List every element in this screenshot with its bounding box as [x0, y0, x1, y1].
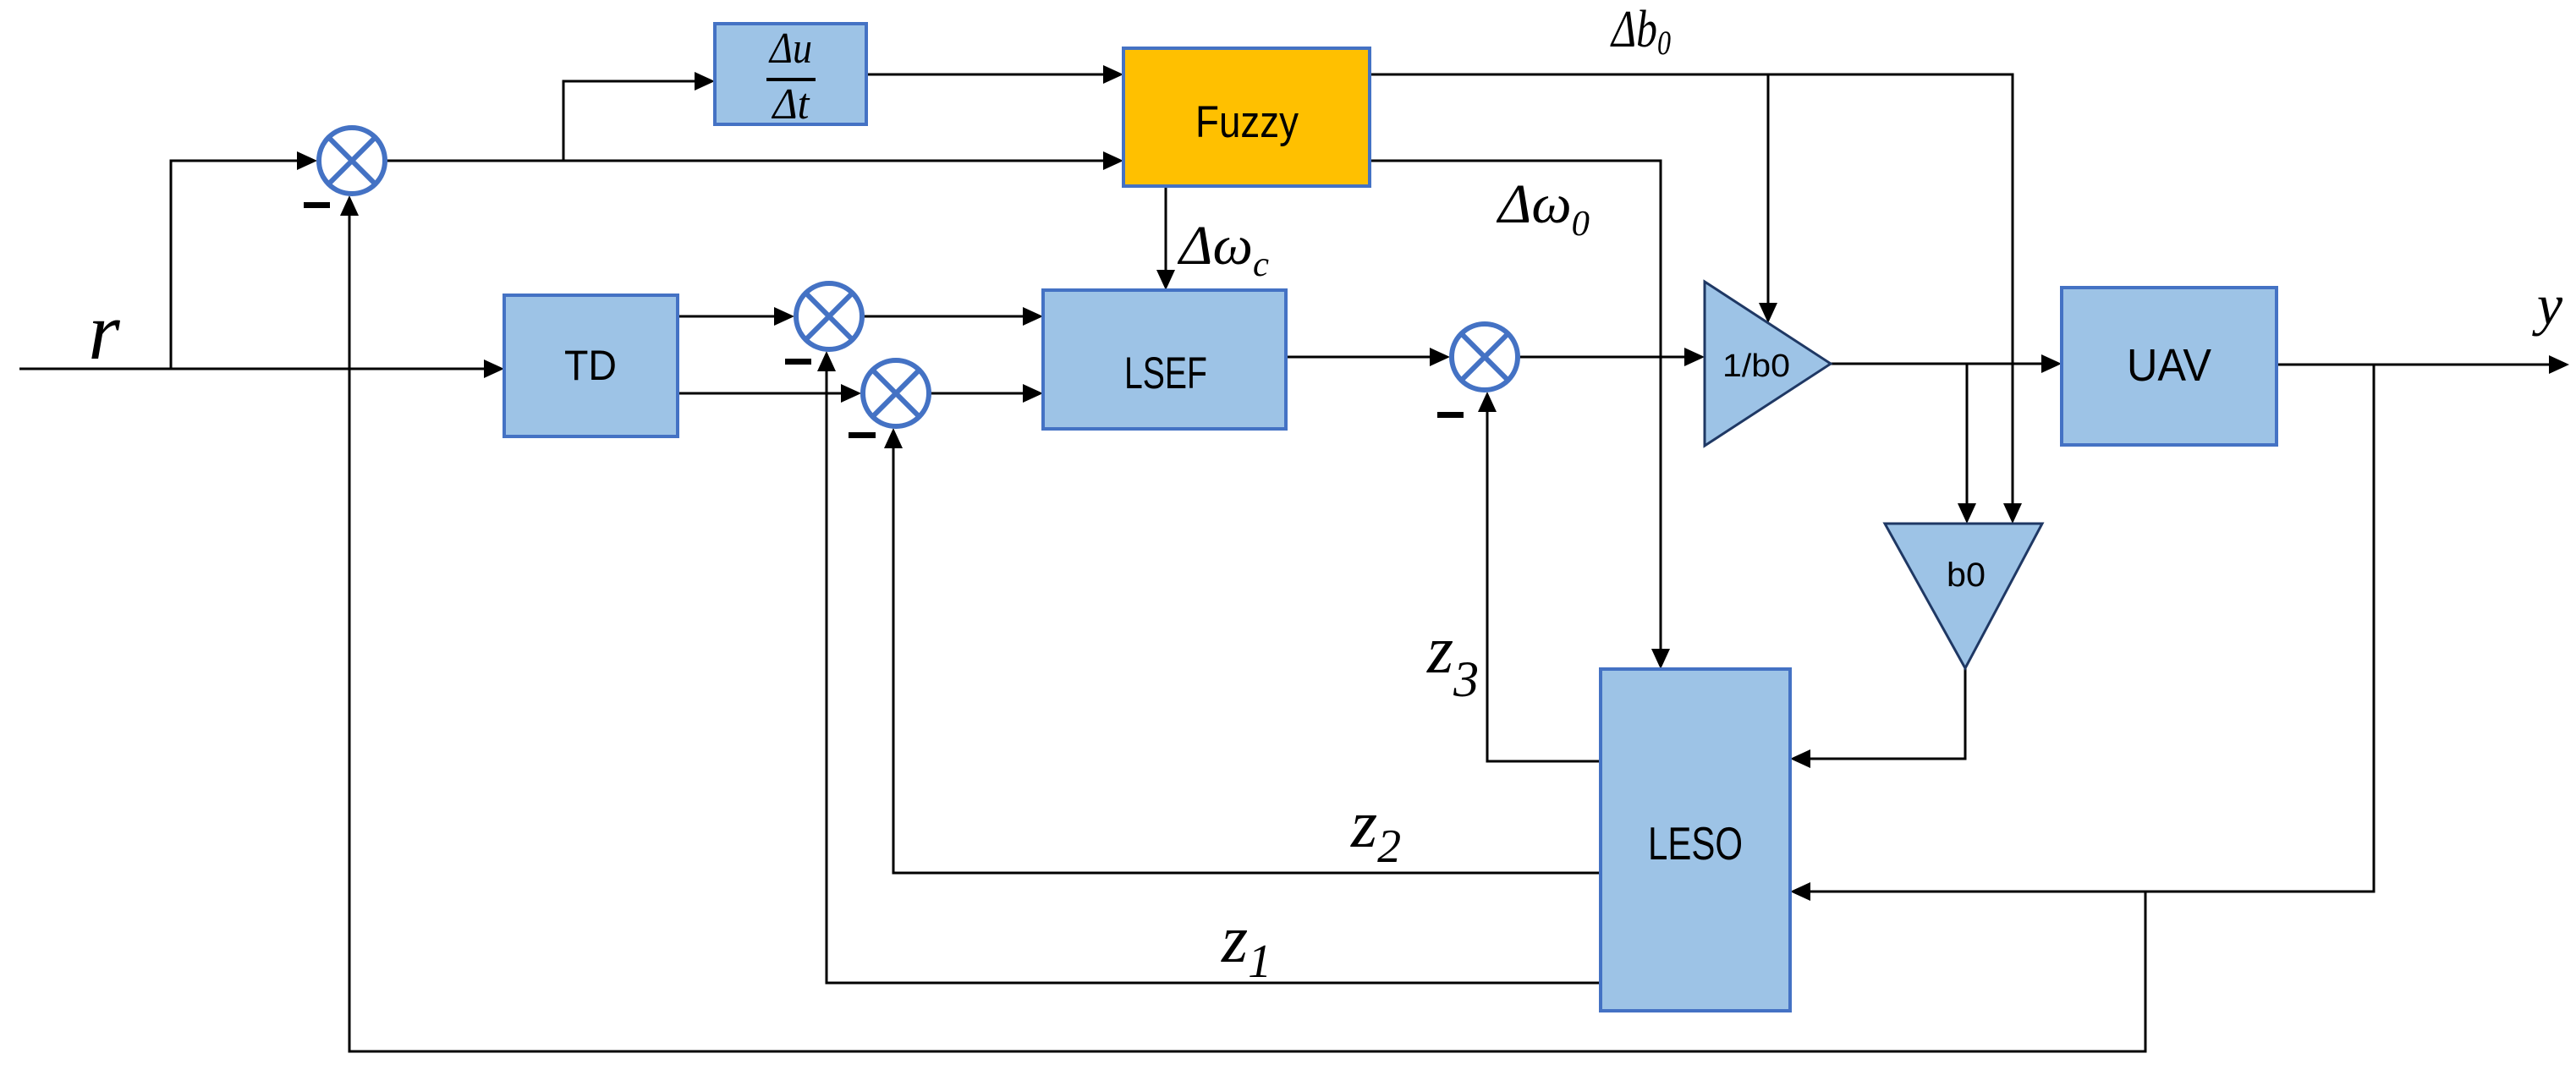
wire r input: [19, 368, 484, 370]
wire y feedback down to LESO right input: [1810, 365, 2374, 892]
wire S3 output to LSEF: [931, 392, 1023, 395]
wire UAV output to y: [2277, 364, 2549, 366]
arrowhead into Fuzzy lower input: [1103, 151, 1123, 170]
arrowhead z1 into S2 bottom: [817, 351, 836, 371]
arrowhead into UAV: [2041, 354, 2062, 373]
wire z2 from LESO to S3: [893, 448, 1601, 873]
wire 1/b0 output to UAV with branch down to b0: [1831, 363, 2041, 365]
arrowhead into du/dt: [695, 72, 715, 91]
arrowhead delta b0 into b0 top: [2003, 503, 2022, 524]
wire S2 output to LSEF: [864, 316, 1023, 318]
arrowhead z3 into S4 bottom: [1478, 392, 1497, 412]
minus sign at S1: [304, 202, 330, 208]
wire du/dt output to Fuzzy upper input: [866, 74, 1103, 76]
arrowhead delta b0 junction into 1/b0 top: [1759, 303, 1777, 323]
svg-text:Δt: Δt: [772, 80, 810, 129]
gain block b0: [1885, 524, 2042, 668]
wire Fuzzy lower output (delta omega0) to LESO top: [1370, 161, 1661, 649]
arrowhead delta omega0 into LESO top: [1651, 649, 1670, 669]
svg-text:LSEF: LSEF: [1124, 348, 1207, 398]
arrowhead into TD: [484, 359, 504, 378]
arrowhead into S1 left: [297, 151, 317, 170]
wire TD upper output to summing junction S2: [678, 316, 774, 318]
summing junction S2: [796, 283, 862, 349]
block UAV: [2062, 288, 2277, 445]
wire TD lower output to summing junction S3: [678, 392, 841, 395]
arrowhead y output: [2549, 355, 2569, 374]
svg-text:UAV: UAV: [2127, 340, 2211, 391]
arrowhead S3 output into LSEF: [1023, 384, 1043, 403]
svg-text:b0: b0: [1947, 557, 1986, 594]
block TD: [504, 295, 678, 436]
arrowhead S2 output into LSEF: [1023, 307, 1043, 326]
wire z3 from LESO to S4: [1487, 412, 1601, 761]
svg-text:Δu: Δu: [768, 25, 812, 73]
wire branch from UAV input line down to b0 top: [1966, 364, 1969, 503]
svg-text:LESO: LESO: [1648, 817, 1743, 870]
arrowhead into Fuzzy upper input: [1103, 65, 1123, 84]
svg-text:1/b0: 1/b0: [1722, 348, 1790, 384]
arrowhead b0 output into LESO right: [1790, 749, 1810, 768]
arrowhead z2 into S3 bottom: [884, 428, 903, 448]
arrowhead branch into b0 top: [1958, 503, 1976, 524]
minus sign at S3: [849, 432, 876, 438]
svg-text:y: y: [2532, 272, 2563, 337]
arrowhead y feedback into LESO right: [1790, 882, 1810, 901]
svg-text:Fuzzy: Fuzzy: [1195, 97, 1299, 147]
arrowhead TD lower output into S3: [841, 384, 861, 403]
wire S4 output to 1/b0 gain: [1519, 356, 1684, 359]
block Fuzzy: [1123, 48, 1370, 186]
minus sign at S2: [785, 359, 811, 365]
svg-text:TD: TD: [564, 342, 617, 389]
wire Fuzzy upper output (delta b0) across top and down to b0: [1370, 74, 2013, 503]
wire S1 output to Fuzzy lower input: [387, 160, 1103, 162]
summing junction S4: [1452, 324, 1518, 390]
summing junction S1: [319, 128, 385, 194]
minus sign at S4: [1437, 412, 1464, 418]
block LSEF: [1043, 290, 1286, 429]
arrowhead delta omega c into LSEF top: [1156, 270, 1175, 290]
arrowhead LSEF output into S4: [1430, 348, 1450, 366]
block du/dt: [715, 24, 866, 129]
wire b0 output to LESO right input: [1810, 668, 1965, 759]
wire y feedback bottom loop to S1: [349, 216, 2145, 1051]
arrowhead S4 output into 1/b0: [1684, 348, 1705, 366]
wire r branch to summing junction S1: [171, 161, 297, 369]
wire z1 from LESO to S2: [827, 371, 1601, 983]
arrowhead TD upper output into S2: [774, 307, 794, 326]
wire LSEF output to summing junction S4: [1286, 356, 1430, 359]
arrowhead bottom loop into S1 bottom: [340, 195, 359, 216]
summing junction S3: [863, 360, 929, 426]
block LESO: [1601, 669, 1790, 1011]
gain block 1/b0: [1705, 282, 1831, 446]
wire junction drop to 1/b0 top: [1767, 74, 1770, 303]
wire branch up to du/dt block: [563, 81, 695, 161]
wire Fuzzy bottom output (delta omega c) to LSEF top: [1165, 186, 1167, 270]
svg-text:r: r: [88, 286, 120, 376]
